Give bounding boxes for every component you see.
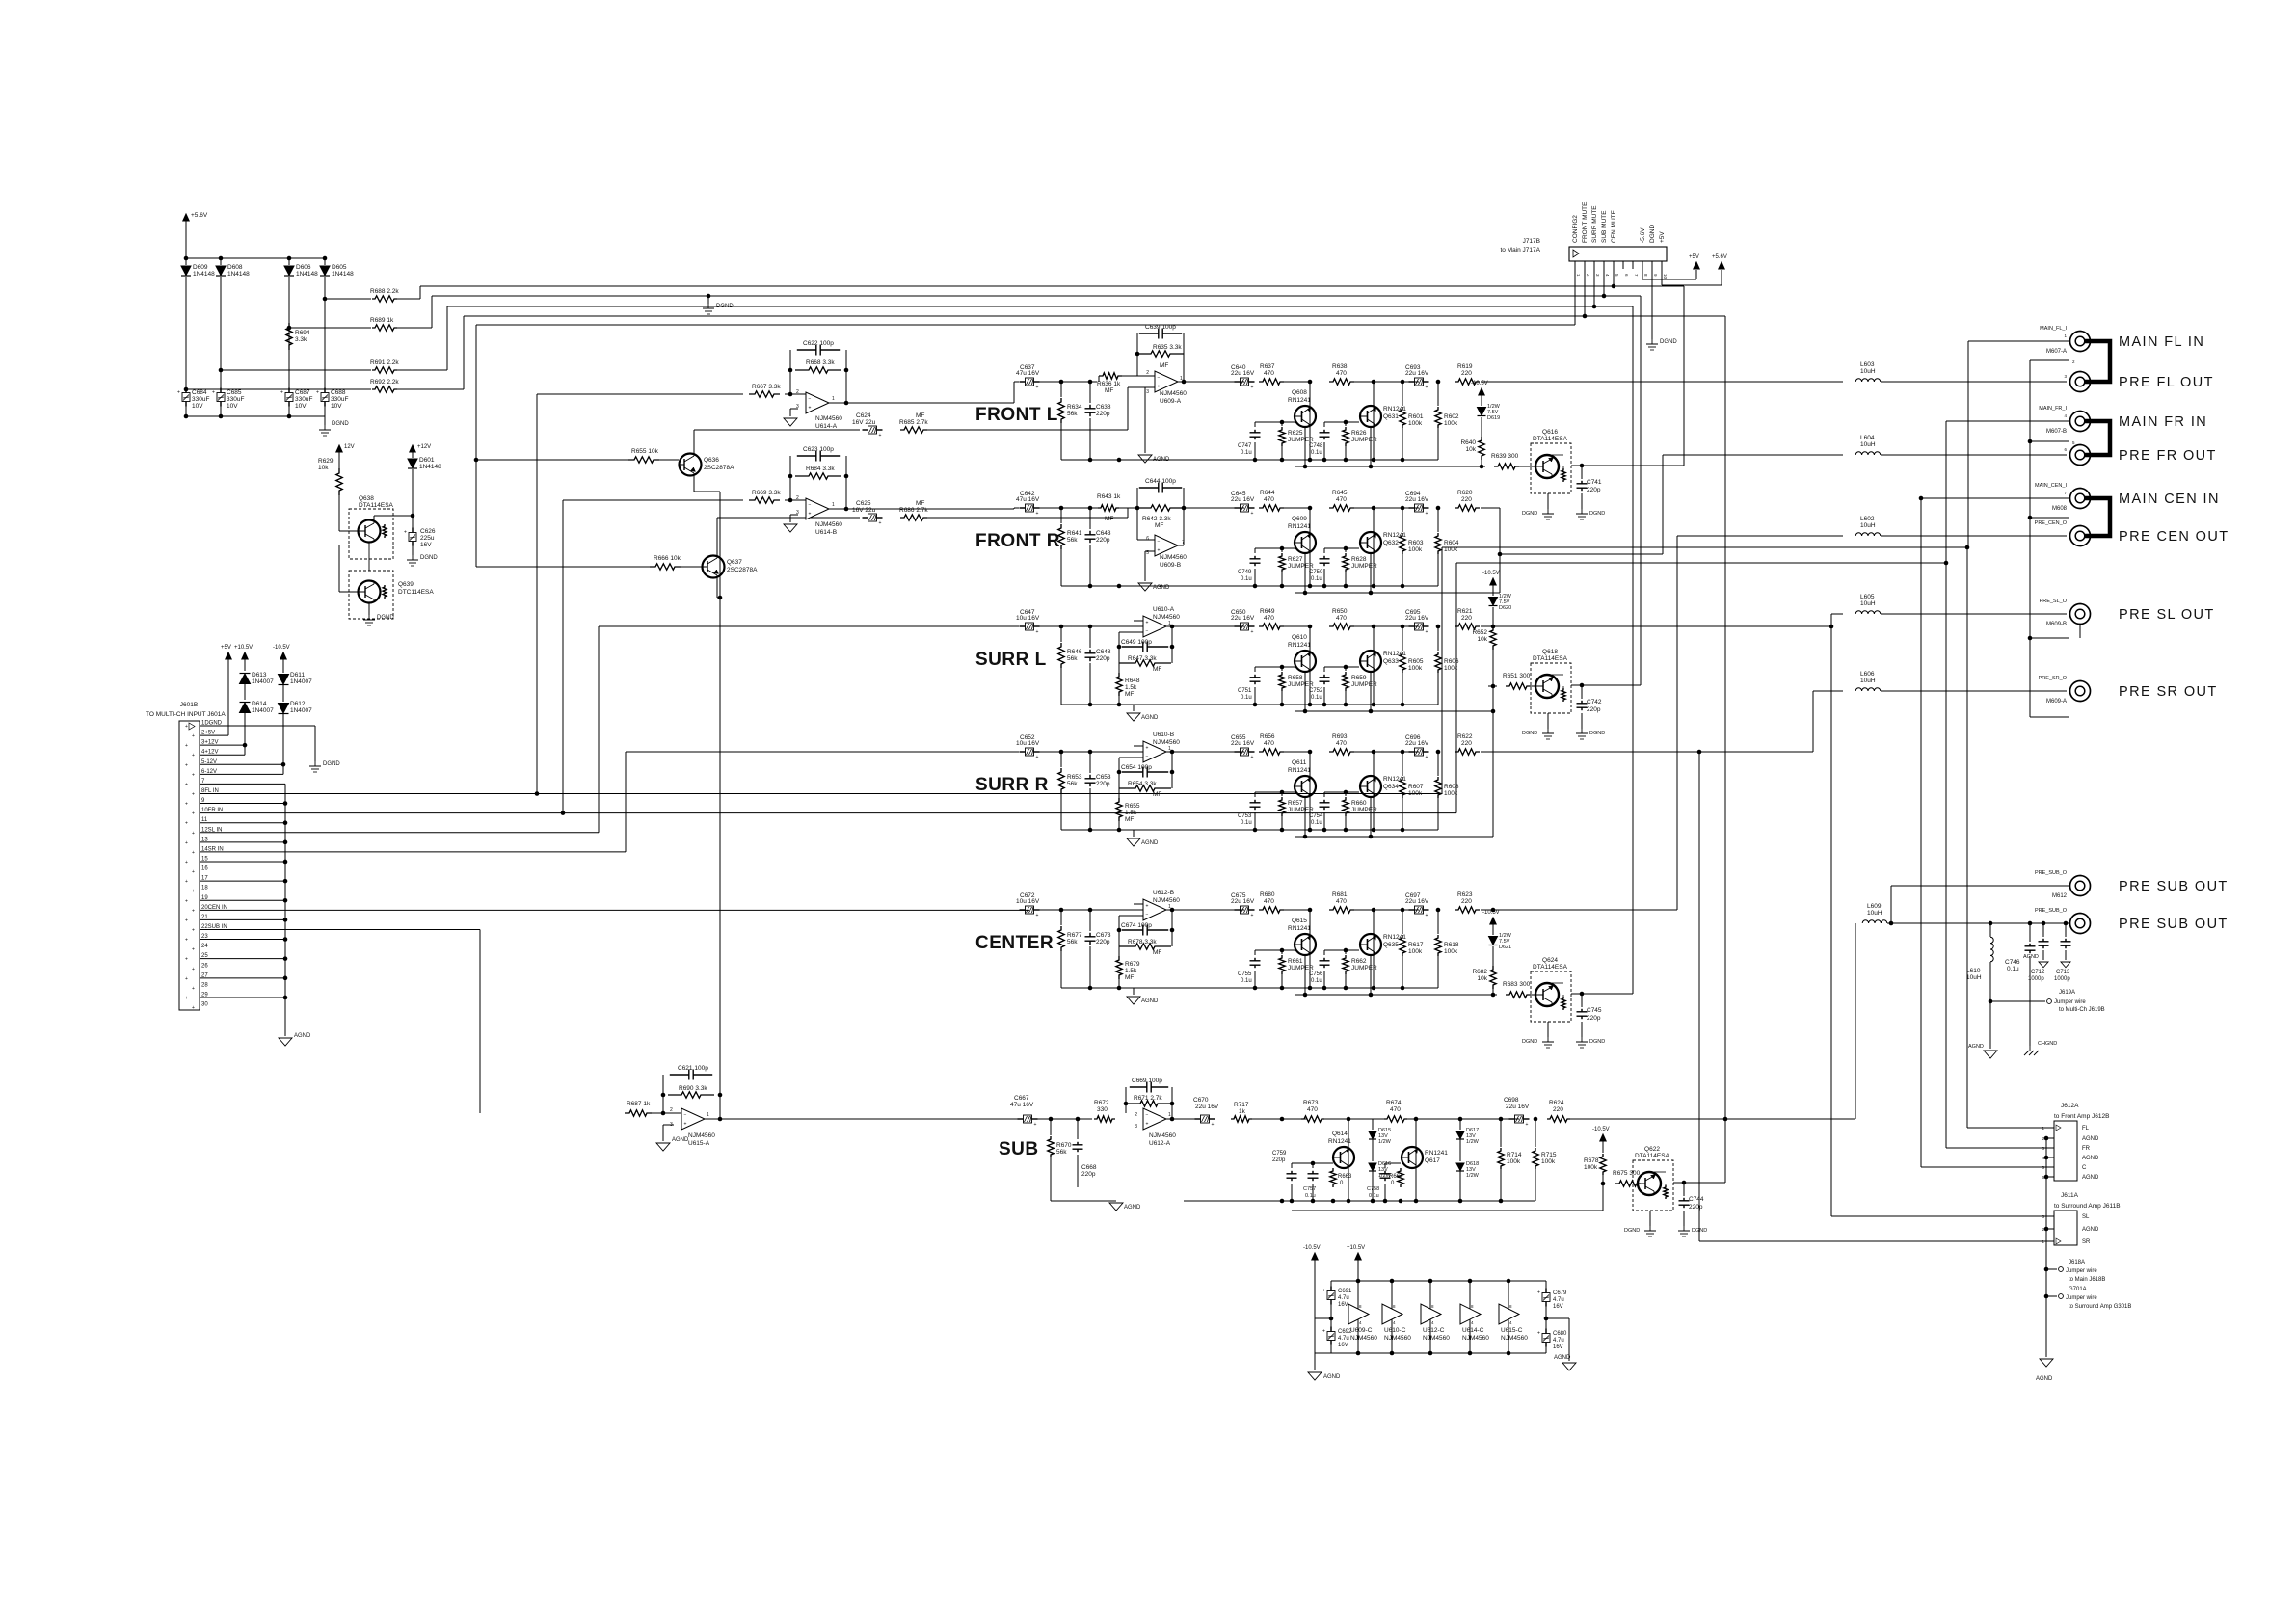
- capacitor C621 100p: [662, 1075, 664, 1113]
- svg-text:−: −: [1158, 376, 1161, 382]
- wire: [324, 277, 326, 389]
- resistor R605 100k: [1401, 625, 1405, 629]
- svg-text:RN1241: RN1241: [1425, 1150, 1448, 1157]
- wire bottom rail 1: [1061, 987, 1438, 989]
- svg-text:R628: R628: [1351, 556, 1367, 563]
- svg-text:CEN MUTE: CEN MUTE: [1611, 209, 1617, 243]
- resistor R606 100k: [1436, 625, 1441, 629]
- svg-text:R623: R623: [1457, 891, 1473, 898]
- svg-text:R691 2.2k: R691 2.2k: [370, 359, 399, 366]
- svg-text:10u 16V: 10u 16V: [1016, 615, 1040, 622]
- svg-text:R640: R640: [1460, 439, 1476, 446]
- ground AGND right: [1562, 1363, 1576, 1370]
- svg-text:RN1241: RN1241: [1288, 642, 1311, 649]
- transistor Q611 RN1241: [1309, 752, 1311, 830]
- power flag +5.6V: [1719, 262, 1724, 269]
- svg-text:D619: D619: [1487, 415, 1500, 421]
- thick jumper bar: [2085, 498, 2110, 536]
- svg-text:R637: R637: [1260, 363, 1275, 370]
- wire bottom rail 2: [1295, 466, 1481, 467]
- capacitor C639: [1136, 333, 1138, 354]
- svg-text:C639 100p: C639 100p: [1145, 324, 1176, 331]
- diode D606: [288, 258, 290, 265]
- svg-text:+: +: [1146, 621, 1149, 626]
- wire FR riser to preamp: [562, 500, 564, 813]
- diode D613 1N4007: [244, 659, 246, 671]
- svg-text:L603: L603: [1860, 361, 1875, 368]
- capacitor C747: [1254, 422, 1256, 427]
- svg-text:MF: MF: [1155, 522, 1163, 529]
- svg-text:D606: D606: [296, 264, 311, 271]
- svg-text:MAIN_FR_I: MAIN_FR_I: [2039, 406, 2067, 412]
- svg-text:220p: 220p: [1096, 537, 1110, 544]
- svg-text:+: +: [185, 957, 188, 963]
- wire bus line y337: [476, 324, 1575, 326]
- svg-text:FRONT R: FRONT R: [975, 531, 1060, 551]
- resistor R642: [1137, 505, 1184, 511]
- svg-text:R717: R717: [1234, 1102, 1249, 1108]
- ground AGND: [2039, 962, 2048, 968]
- pin 5 J612A C: [2046, 1166, 2054, 1168]
- svg-text:225u: 225u: [420, 535, 435, 542]
- ground AGND: [1989, 1001, 1991, 1049]
- svg-text:NJM4560: NJM4560: [688, 1132, 715, 1139]
- capacitor C673: [1089, 910, 1091, 931]
- svg-text:+: +: [192, 831, 195, 837]
- resistor R663 0: [1332, 1163, 1334, 1167]
- svg-text:22u 16V: 22u 16V: [1231, 740, 1255, 747]
- capacitor C748: [1323, 422, 1325, 427]
- svg-text:PRE SUB OUT: PRE SUB OUT: [2119, 879, 2229, 894]
- wire bottom rail 2: [1295, 710, 1493, 712]
- svg-text:R626: R626: [1351, 430, 1367, 437]
- resistor R674 470: [1384, 1116, 1407, 1122]
- svg-text:C747: C747: [1238, 443, 1252, 449]
- svg-text:1/2W: 1/2W: [1466, 1139, 1480, 1145]
- svg-text:C754: C754: [1309, 813, 1323, 819]
- svg-text:DGND: DGND: [1589, 511, 1605, 517]
- svg-text:L610: L610: [1966, 968, 1981, 974]
- wire bottom rail 1: [1061, 585, 1438, 587]
- svg-text:J612A: J612A: [2061, 1103, 2079, 1109]
- svg-text:4.7u: 4.7u: [1338, 1295, 1349, 1301]
- wire SL out: [1481, 625, 1831, 627]
- svg-text:+: +: [185, 996, 188, 1001]
- op-amp U610-B: [1143, 741, 1166, 762]
- resistor R656: [1259, 749, 1284, 755]
- resistor R651 300: [1506, 683, 1531, 689]
- capacitor C713 1000p: [2065, 923, 2067, 937]
- svg-text:Q616: Q616: [1542, 429, 1558, 436]
- capacitor C625 16V 22u: [863, 517, 868, 519]
- svg-text:220: 220: [1553, 1106, 1563, 1113]
- resistor R692: [186, 388, 371, 390]
- svg-text:+: +: [1322, 1329, 1325, 1335]
- svg-text:56k: 56k: [1067, 939, 1078, 945]
- svg-text:100k: 100k: [1408, 948, 1423, 955]
- svg-text:C759: C759: [1272, 1151, 1287, 1157]
- svg-text:R622: R622: [1457, 733, 1473, 740]
- svg-text:0.1u: 0.1u: [1311, 978, 1322, 984]
- svg-text:+: +: [1426, 629, 1428, 635]
- svg-text:+: +: [1036, 511, 1039, 517]
- pin 6 J717B: [1622, 261, 1624, 269]
- svg-text:+: +: [185, 821, 188, 827]
- svg-text:10k: 10k: [318, 465, 329, 471]
- svg-text:C623 100p: C623 100p: [803, 446, 834, 453]
- wire top rail: [186, 257, 325, 259]
- wire bus: [397, 327, 432, 329]
- wire SR IN: [200, 851, 626, 853]
- capacitor C698 22u 16V: [1509, 1118, 1515, 1120]
- wire MAIN FR riser: [1455, 563, 1457, 813]
- svg-text:3: 3: [796, 510, 799, 516]
- svg-text:220: 220: [1461, 898, 1472, 905]
- wire: [645, 566, 654, 568]
- svg-text:AGND: AGND: [2082, 1156, 2099, 1161]
- svg-text:R690 3.3k: R690 3.3k: [679, 1085, 707, 1092]
- wire FR IN: [200, 812, 1456, 814]
- pin 1 J612A FL: [2046, 1127, 2054, 1129]
- ground AGND: [1145, 386, 1155, 388]
- svg-text:+10.5V: +10.5V: [234, 645, 253, 651]
- svg-text:+: +: [1158, 385, 1161, 390]
- wire Q636 emitter down: [693, 476, 695, 492]
- svg-text:R680: R680: [1260, 891, 1275, 898]
- resistor R673 470: [1301, 1116, 1324, 1122]
- diode D608: [220, 258, 222, 265]
- capacitor C752: [1323, 667, 1325, 672]
- transistor Q610 RN1241: [1309, 626, 1311, 705]
- svg-text:1N4148: 1N4148: [227, 271, 250, 278]
- svg-text:1: 1: [707, 1112, 709, 1118]
- ground DGND: [314, 761, 316, 766]
- svg-text:M612: M612: [2052, 893, 2068, 899]
- resistor R648: [1118, 663, 1120, 673]
- resistor R672 330: [1094, 1116, 1115, 1122]
- svg-text:M609-B: M609-B: [2046, 622, 2067, 627]
- svg-text:+: +: [879, 433, 882, 439]
- capacitor C638: [1089, 382, 1091, 403]
- wire pin1 CONFIG2: [1574, 269, 1576, 325]
- capacitor C675: [1235, 909, 1241, 911]
- capacitor C679 4.7u 16V: [1545, 1281, 1547, 1290]
- svg-text:R621: R621: [1457, 608, 1473, 615]
- svg-text:10uH: 10uH: [1860, 600, 1876, 607]
- transistor Q634 RN1241: [1373, 752, 1375, 830]
- capacitor C696: [1409, 751, 1415, 753]
- svg-text:C638: C638: [1096, 404, 1111, 411]
- capacitor C750: [1323, 548, 1325, 553]
- svg-text:47u 16V: 47u 16V: [1016, 496, 1040, 503]
- svg-text:1/2W: 1/2W: [1378, 1139, 1392, 1145]
- jumper G701A: [2044, 1294, 2049, 1299]
- svg-text:RN1241: RN1241: [1288, 767, 1311, 774]
- op-amp U609-A: [1155, 371, 1178, 392]
- resistor R716 56k: [1183, 1119, 1185, 1187]
- resistor R677: [1060, 910, 1062, 925]
- svg-text:C625: C625: [856, 500, 871, 507]
- pin 4 J612A AGND: [2046, 1157, 2054, 1158]
- wire pin5 pin6: [282, 714, 284, 774]
- svg-text:Q618: Q618: [1542, 649, 1558, 655]
- svg-text:PRE SR OUT: PRE SR OUT: [2119, 684, 2218, 700]
- svg-text:3: 3: [1146, 389, 1149, 395]
- svg-text:R650: R650: [1332, 608, 1348, 615]
- wire bottom rail 2: [1295, 592, 1500, 594]
- resistor R652 10k: [1490, 626, 1496, 650]
- svg-text:R652: R652: [1472, 629, 1487, 636]
- svg-text:SURR L: SURR L: [975, 650, 1047, 670]
- capacitor C712 1000p: [2042, 923, 2044, 937]
- capacitor C674: [1119, 915, 1143, 917]
- svg-text:R684 3.3k: R684 3.3k: [806, 466, 835, 472]
- wire collector out: [1559, 465, 1571, 466]
- ground DGND stub: [707, 296, 709, 304]
- inductor L605 10uH: [1855, 611, 1881, 614]
- svg-text:D605: D605: [332, 264, 347, 271]
- wire Q624 out: [1582, 993, 1633, 995]
- svg-text:R672: R672: [1094, 1100, 1109, 1106]
- transistor Q622 DTA114ESA: [1633, 1160, 1673, 1211]
- svg-text:AGND: AGND: [1124, 1205, 1141, 1211]
- svg-text:Q633: Q633: [1383, 658, 1399, 665]
- svg-text:R651 300: R651 300: [1503, 673, 1531, 679]
- svg-text:R662: R662: [1351, 958, 1367, 965]
- svg-text:3: 3: [796, 404, 799, 410]
- diode D612 1N4007: [282, 685, 284, 702]
- RCA jack MAIN FL IN: [2070, 332, 2091, 352]
- resistor R621: [1455, 624, 1480, 629]
- resistor R626 JUMPER: [1345, 422, 1347, 426]
- wire op-amp out: [1178, 545, 1184, 546]
- wire SR out: [1481, 751, 1813, 753]
- svg-text:U612-C: U612-C: [1423, 1327, 1445, 1334]
- svg-text:TO MULTI-CH INPUT J601A: TO MULTI-CH INPUT J601A: [146, 711, 226, 718]
- svg-text:MF: MF: [1153, 666, 1161, 673]
- svg-text:22u 16V: 22u 16V: [1506, 1104, 1530, 1110]
- pin 4 J717B: [1603, 261, 1605, 269]
- svg-text:R649: R649: [1260, 608, 1275, 615]
- svg-text:C674 100p: C674 100p: [1121, 922, 1152, 929]
- svg-text:10u 16V: 10u 16V: [1016, 740, 1040, 747]
- wire U614-B out: [846, 508, 1014, 510]
- svg-text:220p: 220p: [1587, 1015, 1601, 1022]
- svg-text:2: 2: [1135, 1112, 1137, 1118]
- svg-text:100k: 100k: [1507, 1158, 1521, 1165]
- svg-text:330uF: 330uF: [227, 396, 244, 403]
- ground DGND: [1581, 729, 1583, 733]
- svg-text:100k: 100k: [1444, 665, 1458, 672]
- pin 1 J717B: [1574, 261, 1576, 269]
- svg-text:22u 16V: 22u 16V: [1405, 740, 1429, 747]
- svg-text:+: +: [185, 782, 188, 787]
- svg-text:−: −: [1146, 913, 1149, 918]
- svg-text:DGND: DGND: [377, 615, 394, 621]
- svg-text:R714: R714: [1507, 1152, 1522, 1158]
- svg-text:+: +: [192, 927, 195, 933]
- resistor R658 JUMPER: [1281, 667, 1283, 671]
- wire: [1284, 381, 1342, 383]
- svg-text:220: 220: [1461, 615, 1472, 622]
- svg-text:DTA114ESA: DTA114ESA: [1533, 436, 1568, 442]
- svg-text:AGND: AGND: [2082, 1227, 2099, 1233]
- capacitor C653: [1089, 752, 1091, 773]
- svg-text:470: 470: [1264, 615, 1274, 622]
- svg-text:-10.5V: -10.5V: [1303, 1245, 1321, 1251]
- svg-text:4.7u: 4.7u: [1553, 1297, 1564, 1303]
- resistor R625 JUMPER: [1281, 422, 1283, 426]
- svg-text:22u 16V: 22u 16V: [1405, 370, 1429, 377]
- wire bottom rail: [1184, 1200, 1535, 1202]
- svg-text:+: +: [192, 772, 195, 778]
- svg-text:R629: R629: [318, 458, 334, 465]
- svg-text:Jumper wire: Jumper wire: [2066, 1268, 2097, 1274]
- pin 9 J717B: [1651, 261, 1653, 269]
- resistor R602 100k: [1436, 380, 1441, 385]
- capacitor C742 220p: [1571, 684, 1582, 686]
- zener diode D619: [1478, 408, 1486, 416]
- svg-text:-10.5V: -10.5V: [1482, 571, 1500, 576]
- wire MAIN CEN feed: [1921, 497, 2069, 499]
- wire: [1039, 751, 1061, 753]
- svg-text:MF: MF: [916, 412, 924, 419]
- svg-text:C626: C626: [420, 528, 436, 535]
- transistor Q617 RN1241: [1415, 1119, 1417, 1201]
- svg-text:2SC2878A: 2SC2878A: [704, 465, 734, 471]
- svg-text:10uH: 10uH: [1966, 974, 1982, 981]
- svg-text:Jumper wire: Jumper wire: [2054, 999, 2086, 1005]
- wire emitter: [1304, 797, 1306, 837]
- resistor R666 10k: [650, 564, 681, 570]
- svg-text:1N4148: 1N4148: [296, 271, 318, 278]
- resistor R622: [1455, 749, 1480, 755]
- wire MAIN FL riser: [1441, 547, 1443, 793]
- thick jumper bar: [2085, 341, 2110, 382]
- capacitor C669 100p: [1125, 1087, 1127, 1113]
- zener D615: [1372, 1119, 1374, 1130]
- wire FR out jog: [1481, 507, 1500, 509]
- svg-text:R619: R619: [1457, 363, 1473, 370]
- wire SUB out: [1570, 1118, 1855, 1120]
- svg-text:C748: C748: [1309, 443, 1323, 449]
- wire bottom rail 1: [1061, 829, 1438, 831]
- wire pin1 DGND: [200, 725, 315, 727]
- svg-text:+: +: [684, 1122, 687, 1128]
- connector J611A: [2054, 1211, 2077, 1245]
- RCA jack PRE FR OUT: [2070, 445, 2091, 466]
- svg-text:JUMPER: JUMPER: [1351, 437, 1377, 443]
- svg-text:C668: C668: [1081, 1164, 1097, 1171]
- cluster left: [1255, 666, 1295, 668]
- svg-text:PRE FL OUT: PRE FL OUT: [2119, 375, 2214, 390]
- wire: [1324, 1118, 1385, 1120]
- svg-text:JUMPER: JUMPER: [1288, 437, 1314, 443]
- svg-text:220: 220: [1461, 740, 1472, 747]
- capacitor C668 220p: [1077, 1119, 1079, 1139]
- pin 2 J717B: [1584, 261, 1586, 269]
- svg-text:100k: 100k: [1444, 420, 1458, 427]
- power flag -10.5V: [1312, 1253, 1318, 1260]
- svg-text:+: +: [1146, 746, 1149, 752]
- svg-text:+: +: [185, 976, 188, 982]
- capacitor C744 220p: [1673, 1182, 1684, 1184]
- resistor R670 56k: [1050, 1119, 1052, 1135]
- wire Q637 emitter: [716, 578, 718, 598]
- wire: [1178, 381, 1244, 383]
- wire bus: [397, 388, 464, 390]
- svg-text:6: 6: [1146, 536, 1149, 542]
- svg-text:C624: C624: [856, 412, 871, 419]
- svg-text:0.1u: 0.1u: [1241, 978, 1252, 984]
- transistor Q639 DTC114ESA: [349, 571, 393, 619]
- op-amp U609-C buffer: [1348, 1304, 1369, 1324]
- svg-text:NJM4560: NJM4560: [815, 521, 842, 528]
- svg-text:NJM4560: NJM4560: [1384, 1335, 1411, 1342]
- svg-text:3.3k: 3.3k: [295, 336, 307, 343]
- diode D614 1N4007: [244, 684, 246, 700]
- svg-text:R678: R678: [1584, 1157, 1599, 1164]
- svg-text:C680: C680: [1553, 1331, 1567, 1337]
- svg-text:1N4148: 1N4148: [193, 271, 215, 278]
- svg-text:DGND: DGND: [1589, 1039, 1605, 1045]
- connector J612A: [2054, 1121, 2077, 1181]
- wire rail 2: [1292, 1210, 1603, 1211]
- svg-text:16V: 16V: [420, 542, 432, 548]
- svg-text:+: +: [1251, 913, 1254, 918]
- svg-text:JUMPER: JUMPER: [1351, 681, 1377, 688]
- svg-text:+: +: [1426, 385, 1428, 390]
- capacitor C745 220p: [1571, 993, 1582, 995]
- capacitor C753: [1254, 792, 1256, 797]
- svg-text:470: 470: [1336, 370, 1347, 377]
- wire: [1407, 1118, 1519, 1120]
- svg-text:DGND: DGND: [1589, 731, 1605, 736]
- svg-text:D612: D612: [290, 701, 306, 707]
- svg-text:C643: C643: [1096, 530, 1111, 537]
- svg-text:+: +: [1322, 1289, 1325, 1294]
- svg-text:L606: L606: [1860, 671, 1875, 678]
- svg-text:0.1u: 0.1u: [1311, 450, 1322, 456]
- svg-text:DGND: DGND: [332, 421, 349, 427]
- svg-text:C685: C685: [227, 389, 242, 396]
- resistor R682 10k: [1490, 966, 1496, 989]
- resistor R628 JUMPER: [1345, 548, 1347, 552]
- svg-text:PRE SL OUT: PRE SL OUT: [2119, 607, 2215, 623]
- wire center vertical: [719, 492, 721, 1075]
- svg-text:AGND: AGND: [294, 1033, 311, 1039]
- wire FL riser to preamp: [536, 394, 538, 793]
- svg-text:3: 3: [670, 1122, 673, 1128]
- wire SL IN: [200, 832, 599, 834]
- capacitor C688: [324, 388, 326, 393]
- resistor R693: [1329, 749, 1354, 755]
- svg-text:100k: 100k: [1444, 546, 1458, 553]
- resistor R655: [1118, 788, 1120, 798]
- svg-text:470: 470: [1336, 615, 1347, 622]
- svg-text:M607-A: M607-A: [2046, 349, 2067, 355]
- svg-text:to Multi-Ch J619B: to Multi-Ch J619B: [2059, 1007, 2105, 1013]
- svg-text:CHGND: CHGND: [2038, 1041, 2057, 1047]
- svg-text:−: −: [1146, 755, 1149, 760]
- svg-text:R634: R634: [1067, 404, 1082, 411]
- svg-text:+: +: [809, 406, 812, 412]
- resistor R620: [1455, 505, 1480, 511]
- svg-text:R646: R646: [1067, 649, 1082, 655]
- svg-text:C712: C712: [2031, 970, 2045, 975]
- svg-text:R603: R603: [1408, 540, 1424, 546]
- RCA jack PRE CEN OUT: [2070, 526, 2091, 546]
